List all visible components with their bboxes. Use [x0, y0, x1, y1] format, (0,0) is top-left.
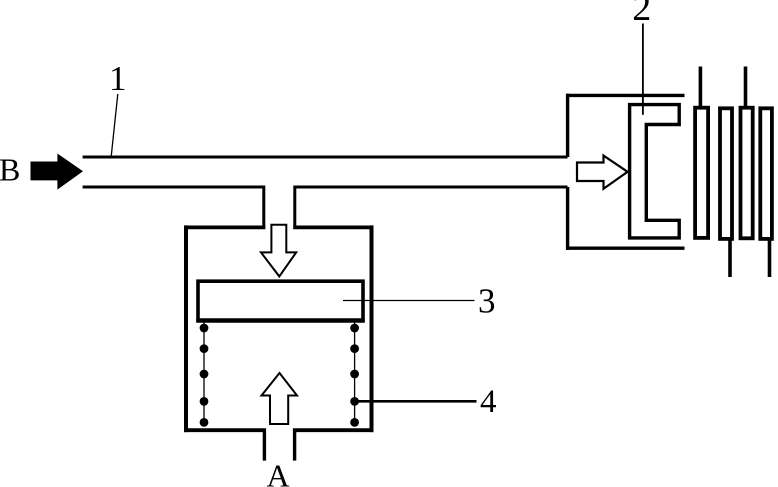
svg-text:B: B	[0, 152, 20, 188]
svg-text:1: 1	[109, 59, 127, 98]
svg-text:4: 4	[480, 384, 497, 420]
svg-text:2: 2	[632, 0, 651, 29]
svg-text:3: 3	[478, 282, 496, 321]
svg-text:A: A	[266, 457, 289, 487]
